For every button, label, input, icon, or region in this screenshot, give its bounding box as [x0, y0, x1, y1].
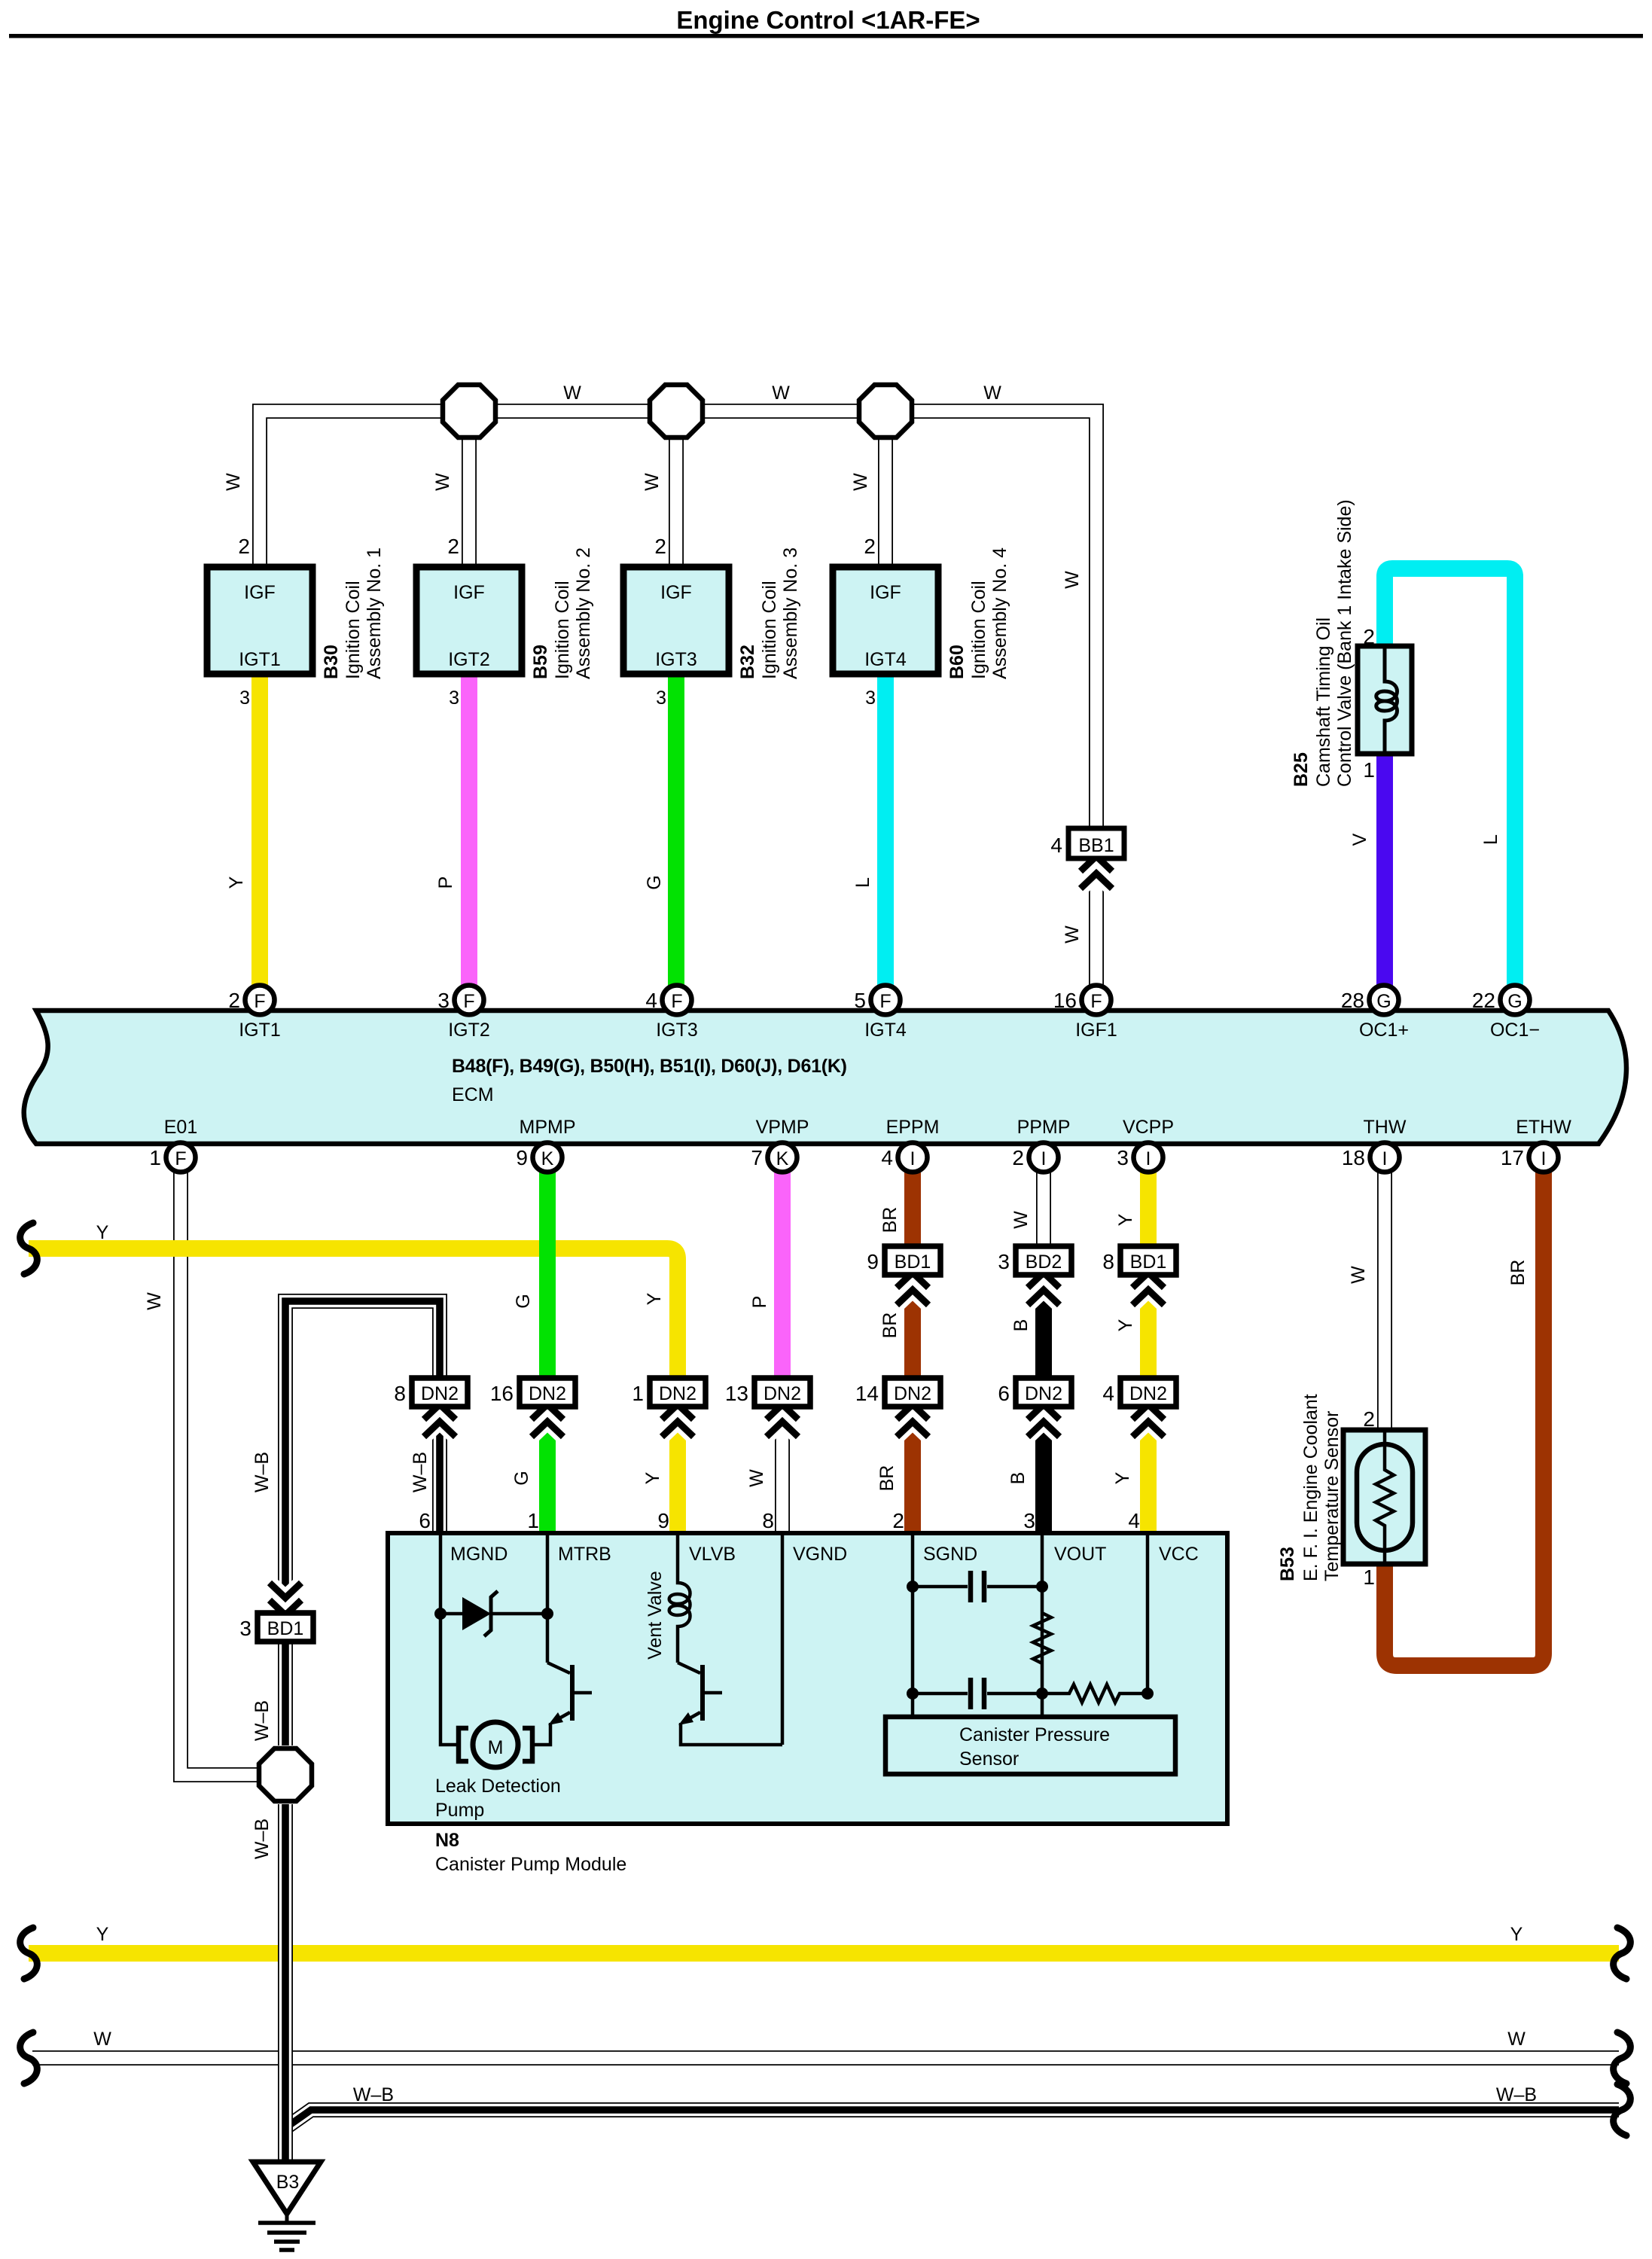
svg-text:Ignition Coil: Ignition Coil [343, 581, 364, 679]
wire W-B module MGND pin 6 through DN2 and BD1 to junction4 [285, 1301, 440, 1745]
svg-text:F: F [671, 991, 682, 1012]
svg-text:2: 2 [1363, 625, 1375, 648]
svg-text:BD2: BD2 [1026, 1251, 1062, 1273]
svg-text:3: 3 [239, 1617, 251, 1640]
resistor R2 [1042, 1684, 1148, 1703]
svg-text:DN2: DN2 [659, 1383, 696, 1404]
svg-text:B: B [1010, 1319, 1032, 1332]
svg-text:B60: B60 [946, 645, 968, 679]
svg-text:VPMP: VPMP [756, 1117, 809, 1138]
svg-text:V: V [1349, 833, 1370, 846]
svg-text:G: G [511, 1471, 532, 1485]
connector 8 DN2 [394, 1378, 468, 1437]
connector 13 DN2 [725, 1378, 810, 1437]
svg-text:Y: Y [96, 1924, 109, 1945]
svg-text:MPMP: MPMP [520, 1117, 576, 1138]
svg-text:EPPM: EPPM [886, 1117, 940, 1138]
svg-text:4: 4 [1050, 834, 1062, 857]
connector 4 BB1 [1050, 828, 1124, 889]
svg-text:9: 9 [516, 1146, 528, 1169]
torn end wire W-B bottom right [1614, 2084, 1631, 2136]
ECM pin 5 (F) [854, 986, 900, 1015]
wire V B25 valve pin 1 to ECM pin OC1+ [1376, 754, 1393, 986]
svg-text:L: L [852, 877, 873, 888]
svg-text:Control Valve (Bank 1 Intake S: Control Valve (Bank 1 Intake Side) [1334, 499, 1355, 787]
svg-text:1: 1 [1363, 1565, 1375, 1589]
svg-text:W: W [746, 1469, 767, 1487]
svg-text:W–B: W–B [410, 1452, 431, 1492]
svg-text:G: G [644, 875, 665, 889]
svg-text:F: F [1090, 991, 1102, 1012]
svg-text:I: I [1541, 1148, 1547, 1169]
svg-text:Y: Y [1112, 1471, 1133, 1484]
svg-text:Y: Y [644, 1292, 665, 1305]
svg-text:3: 3 [656, 687, 666, 709]
svg-text:IGT1: IGT1 [239, 649, 281, 670]
wire Y bottom harness [29, 1945, 1619, 1962]
svg-text:BR: BR [1507, 1260, 1529, 1286]
node dot [1141, 1687, 1154, 1700]
svg-text:W–B: W–B [251, 1818, 273, 1859]
title rule [9, 34, 1643, 38]
ECM pin 1 (F) [149, 1143, 195, 1172]
svg-text:W: W [144, 1292, 165, 1310]
svg-text:IGF: IGF [453, 582, 485, 603]
ECM pin 2 (F) [228, 986, 274, 1015]
wire VCC internal [1146, 1533, 1150, 1693]
svg-text:BR: BR [879, 1207, 901, 1233]
wire Y ignition coil 1 IGT1 to ECM pin 2 [251, 674, 268, 986]
svg-text:B53: B53 [1277, 1547, 1298, 1581]
svg-text:3: 3 [437, 989, 450, 1012]
svg-text:3: 3 [998, 1250, 1010, 1273]
sensor B53 EFI Engine Coolant Temperature Sensor [1277, 1394, 1425, 1589]
wire L B25 valve pin 2 to ECM pin OC1- [1385, 569, 1515, 986]
svg-text:13: 13 [725, 1382, 748, 1405]
svg-text:4: 4 [1102, 1382, 1114, 1405]
svg-text:IGT4: IGT4 [864, 1020, 907, 1041]
svg-text:BD1: BD1 [1130, 1251, 1167, 1273]
wire W ECM E01 to junction4 [181, 1172, 257, 1775]
ECM pin 3 (F) [437, 986, 483, 1015]
node dot [907, 1581, 919, 1593]
connector 16 DN2 [490, 1378, 575, 1437]
svg-text:9: 9 [657, 1509, 669, 1532]
svg-text:W: W [642, 473, 663, 491]
svg-text:B48(F), B49(G), B50(H), B51(I): B48(F), B49(G), B50(H), B51(I), D60(J), … [452, 1056, 847, 1077]
wire G ECM MPMP to module MTRB pin 1 [539, 1172, 556, 1533]
svg-text:Y: Y [1115, 1213, 1136, 1226]
connector 14 DN2 [855, 1378, 940, 1437]
ground B3 [253, 2162, 321, 2250]
svg-text:W: W [93, 2029, 111, 2050]
svg-text:9: 9 [867, 1250, 879, 1273]
svg-text:VLVB: VLVB [689, 1544, 736, 1565]
svg-text:ETHW: ETHW [1516, 1117, 1571, 1138]
svg-text:14: 14 [855, 1382, 879, 1405]
svg-text:E. F. I. Engine Coolant: E. F. I. Engine Coolant [1300, 1394, 1321, 1581]
svg-text:W–B: W–B [251, 1452, 273, 1492]
svg-text:Sensor: Sensor [959, 1748, 1019, 1770]
wire P ignition coil 2 IGT2 to ECM pin 3 [461, 674, 477, 986]
svg-text:W: W [1507, 2029, 1526, 2050]
svg-text:Y: Y [642, 1471, 663, 1484]
svg-text:DN2: DN2 [421, 1383, 459, 1404]
svg-text:P: P [435, 876, 456, 889]
svg-text:1: 1 [149, 1146, 161, 1169]
svg-text:2: 2 [892, 1509, 904, 1532]
svg-text:BD1: BD1 [895, 1251, 931, 1273]
svg-text:DN2: DN2 [529, 1383, 566, 1404]
connector 6 DN2 [998, 1378, 1071, 1437]
canister pressure sensor block [885, 1717, 1175, 1774]
svg-text:DN2: DN2 [764, 1383, 801, 1404]
ignition coil B59 (IGT2) [416, 535, 594, 709]
svg-text:B30: B30 [321, 645, 342, 679]
wire VOUT internal [1041, 1533, 1044, 1717]
svg-text:W–B: W–B [251, 1700, 273, 1741]
svg-text:W: W [1010, 1211, 1032, 1229]
ECM pin 17 (I) [1501, 1143, 1559, 1172]
svg-text:W: W [1062, 925, 1083, 944]
svg-text:MTRB: MTRB [558, 1544, 611, 1565]
svg-text:F: F [879, 991, 891, 1012]
svg-text:Engine Control <1AR-FE>: Engine Control <1AR-FE> [676, 6, 980, 34]
wire G ignition coil 3 IGT3 to ECM pin 4 [668, 674, 684, 986]
svg-text:Ignition Coil: Ignition Coil [552, 581, 573, 679]
ECM pin 18 (I) [1342, 1143, 1400, 1172]
svg-text:Y: Y [226, 876, 247, 889]
svg-text:K: K [776, 1148, 789, 1169]
transistor Q1 [531, 1663, 592, 1745]
ignition coil B30 (IGT1) [207, 535, 385, 709]
svg-text:8: 8 [1102, 1250, 1114, 1273]
svg-text:Assembly No. 4: Assembly No. 4 [989, 547, 1010, 679]
svg-text:B25: B25 [1291, 752, 1312, 787]
svg-text:W–B: W–B [353, 2084, 394, 2105]
svg-text:L: L [1480, 834, 1501, 845]
svg-text:16: 16 [490, 1382, 514, 1405]
svg-text:W–B: W–B [1496, 2084, 1537, 2105]
svg-text:F: F [463, 991, 474, 1012]
svg-text:Y: Y [96, 1222, 109, 1243]
svg-text:M: M [488, 1737, 504, 1758]
ECM pin 3 (I) [1117, 1143, 1163, 1172]
svg-text:IGF1: IGF1 [1075, 1020, 1117, 1041]
ECM pin 28 (G) [1341, 986, 1399, 1015]
svg-text:3: 3 [449, 687, 459, 709]
svg-text:28: 28 [1341, 989, 1364, 1012]
ECM pin 4 (F) [645, 986, 691, 1015]
svg-text:BR: BR [879, 1312, 901, 1339]
svg-text:F: F [175, 1148, 186, 1169]
svg-text:I: I [1382, 1148, 1388, 1169]
svg-text:6: 6 [419, 1509, 431, 1532]
svg-text:B59: B59 [530, 645, 551, 679]
motor M leak detection pump [459, 1722, 532, 1767]
svg-text:N8: N8 [435, 1830, 459, 1851]
wire W junction2 to junction3 [705, 404, 857, 419]
svg-text:E01: E01 [164, 1117, 197, 1138]
ignition coil B60 (IGT4) [833, 535, 1010, 709]
node junction J3 [859, 385, 912, 437]
ECM pin 22 (G) [1472, 986, 1530, 1015]
svg-text:18: 18 [1342, 1146, 1365, 1169]
svg-text:2: 2 [1012, 1146, 1024, 1169]
vent valve coil [669, 1533, 690, 1663]
svg-text:IGT1: IGT1 [239, 1020, 281, 1041]
wire W bottom harness [32, 2050, 1619, 2065]
connector 3 BD1 [239, 1583, 313, 1642]
svg-text:2: 2 [654, 535, 666, 558]
wire B BD2 to module VOUT pin 3 [1035, 1250, 1052, 1533]
svg-text:VGND: VGND [793, 1544, 847, 1565]
ECM pin 7 (K) [751, 1143, 797, 1172]
svg-text:2: 2 [864, 535, 876, 558]
svg-text:B: B [1007, 1472, 1029, 1485]
svg-text:G: G [1507, 991, 1522, 1012]
svg-text:Y: Y [1115, 1319, 1136, 1331]
wire MGND internal [440, 1533, 459, 1745]
zener diode D1 [434, 1591, 553, 1636]
svg-text:THW: THW [1364, 1117, 1407, 1138]
svg-text:B32: B32 [737, 645, 758, 679]
svg-text:Temperature Sensor: Temperature Sensor [1321, 1410, 1343, 1581]
svg-text:VCC: VCC [1159, 1544, 1199, 1565]
svg-text:VOUT: VOUT [1054, 1544, 1106, 1565]
svg-text:3: 3 [239, 687, 250, 709]
wire W junction to ignition coil 2 IGF [462, 440, 477, 567]
ECM B48(F),B49(G),B50(H),B51(I),D60(J),D61(K) body [24, 1011, 1626, 1144]
torn end wire W bottom left [20, 2032, 38, 2084]
svg-text:2: 2 [238, 535, 250, 558]
torn end wire Y middle left [20, 1223, 38, 1274]
svg-text:W: W [850, 473, 871, 491]
node junction J1 [443, 385, 495, 437]
ECM pin 16 (F) [1053, 986, 1111, 1015]
svg-text:K: K [541, 1148, 554, 1169]
wire W junction2 to ignition coil 3 IGF [669, 440, 684, 567]
svg-text:OC1−: OC1− [1490, 1020, 1540, 1041]
svg-text:16: 16 [1053, 989, 1077, 1012]
svg-text:2: 2 [228, 989, 240, 1012]
svg-text:BR: BR [876, 1465, 898, 1492]
svg-text:Pump: Pump [435, 1800, 484, 1821]
wire W junction1 to junction2 [498, 404, 648, 419]
connector 8 BD1 [1102, 1246, 1176, 1305]
svg-text:1: 1 [527, 1509, 539, 1532]
connector 4 DN2 [1102, 1378, 1176, 1437]
svg-text:Assembly No. 1: Assembly No. 1 [364, 547, 385, 679]
svg-text:Y: Y [1510, 1924, 1523, 1945]
svg-text:OC1+: OC1+ [1359, 1020, 1409, 1041]
svg-text:W: W [223, 473, 244, 491]
svg-text:DN2: DN2 [1129, 1383, 1167, 1404]
torn end wire W bottom right [1614, 2032, 1631, 2084]
svg-text:Leak Detection: Leak Detection [435, 1776, 561, 1797]
svg-text:4: 4 [1128, 1509, 1140, 1532]
svg-text:4: 4 [881, 1146, 893, 1169]
svg-text:PPMP: PPMP [1017, 1117, 1071, 1138]
wire MTRB internal [546, 1533, 550, 1663]
wire Y ECM VCPP to module VCC pin 4 [1140, 1172, 1157, 1533]
svg-text:2: 2 [1363, 1407, 1375, 1431]
svg-text:BB1: BB1 [1078, 835, 1114, 856]
svg-text:6: 6 [998, 1382, 1010, 1405]
svg-text:W: W [1348, 1266, 1369, 1284]
svg-text:Canister Pump Module: Canister Pump Module [435, 1854, 626, 1875]
wire W ECM THW to B53 sensor pin 2 [1377, 1172, 1392, 1430]
svg-text:2: 2 [447, 535, 459, 558]
svg-text:W: W [983, 383, 1001, 404]
node junction J4 [259, 1748, 312, 1801]
connector 1 DN2 [632, 1378, 706, 1437]
wire P ECM VPMP to DN2 [774, 1172, 791, 1389]
wire W junction3 to BB1 to ECM pin IGF1 [914, 411, 1096, 986]
connector 3 BD2 [998, 1246, 1071, 1305]
svg-text:7: 7 [751, 1146, 763, 1169]
node junction J2 [650, 385, 703, 437]
node dot [1036, 1687, 1048, 1700]
resistor R1 [1033, 1613, 1051, 1663]
wire VGND internal [781, 1533, 785, 1745]
svg-text:VCPP: VCPP [1123, 1117, 1174, 1138]
svg-text:4: 4 [645, 989, 657, 1012]
torn end wire Y bottom left [20, 1928, 38, 1979]
ECM pin 4 (I) [881, 1143, 927, 1172]
svg-text:G: G [513, 1294, 534, 1308]
svg-text:Assembly No. 3: Assembly No. 3 [780, 547, 801, 679]
svg-text:F: F [254, 991, 265, 1012]
svg-text:3: 3 [865, 687, 876, 709]
svg-text:SGND: SGND [923, 1544, 977, 1565]
svg-text:8: 8 [762, 1509, 774, 1532]
svg-text:Assembly No. 2: Assembly No. 2 [573, 547, 594, 679]
wire W-B junction4 to ground B3 [278, 1804, 293, 2162]
wire W DN2 to module VGND pin 8 [775, 1393, 790, 1533]
svg-text:Canister Pressure: Canister Pressure [959, 1724, 1110, 1745]
svg-text:P: P [749, 1296, 770, 1309]
wire W ECM PPMP to BD2 [1036, 1172, 1051, 1262]
node dot [1036, 1581, 1048, 1593]
svg-text:W: W [563, 383, 581, 404]
svg-text:DN2: DN2 [894, 1383, 931, 1404]
svg-text:1: 1 [632, 1382, 644, 1405]
svg-text:Vent Valve: Vent Valve [645, 1571, 666, 1660]
torn end wire Y bottom right [1614, 1928, 1631, 1979]
wire W-B bottom harness [285, 2110, 1619, 2128]
svg-text:3: 3 [1117, 1146, 1129, 1169]
wire BR ECM EPPM to module SGND pin 2 [904, 1172, 921, 1533]
svg-text:1: 1 [1363, 758, 1375, 782]
thermistor element [1376, 1430, 1394, 1564]
transistor Q2 [678, 1663, 782, 1745]
capacitor C1 [913, 1571, 1042, 1602]
svg-text:W: W [772, 383, 790, 404]
svg-text:B3: B3 [276, 2172, 300, 2193]
svg-text:W: W [1062, 571, 1083, 589]
svg-text:IGT2: IGT2 [448, 649, 490, 670]
svg-text:MGND: MGND [450, 1544, 507, 1565]
svg-text:IGF: IGF [870, 582, 901, 603]
svg-text:BD1: BD1 [267, 1618, 304, 1639]
svg-text:I: I [1041, 1148, 1047, 1169]
svg-text:IGF: IGF [244, 582, 276, 603]
svg-text:DN2: DN2 [1025, 1383, 1062, 1404]
svg-text:IGT4: IGT4 [864, 649, 907, 670]
wire W junction3 to ignition coil 4 IGF [878, 440, 893, 567]
wire BR ECM ETHW to B53 sensor pin 1 [1385, 1172, 1544, 1666]
module N8 Canister Pump Module [388, 1533, 1227, 1824]
wire SGND internal [911, 1533, 915, 1717]
wire L ignition coil 4 IGT4 to ECM pin 5 [877, 674, 894, 986]
capacitor C2 [913, 1678, 1042, 1709]
svg-text:17: 17 [1501, 1146, 1524, 1169]
solenoid valve B25 Camshaft Timing Oil Control Valve [1291, 499, 1412, 787]
svg-text:I: I [910, 1148, 916, 1169]
svg-text:22: 22 [1472, 989, 1495, 1012]
svg-text:I: I [1146, 1148, 1151, 1169]
svg-text:3: 3 [1023, 1509, 1035, 1532]
svg-text:8: 8 [394, 1382, 406, 1405]
wire Y harness to DN2 to module VLVB pin 9 [29, 1248, 678, 1533]
svg-text:IGT3: IGT3 [656, 1020, 698, 1041]
svg-text:Ignition Coil: Ignition Coil [968, 581, 989, 679]
svg-text:IGT3: IGT3 [655, 649, 697, 670]
node dot [907, 1687, 919, 1700]
ignition coil B32 (IGT3) [623, 535, 801, 709]
ECM pin 2 (I) [1012, 1143, 1058, 1172]
svg-text:W: W [432, 473, 453, 491]
svg-text:Camshaft Timing Oil: Camshaft Timing Oil [1313, 617, 1334, 787]
svg-text:ECM: ECM [452, 1084, 494, 1105]
svg-text:IGF: IGF [660, 582, 692, 603]
svg-text:Ignition Coil: Ignition Coil [759, 581, 780, 679]
connector 9 BD1 [867, 1246, 940, 1305]
svg-text:5: 5 [854, 989, 866, 1012]
svg-text:G: G [1376, 991, 1391, 1012]
svg-text:IGT2: IGT2 [448, 1020, 490, 1041]
wire W ignition coil 1 IGF to junction [260, 411, 440, 567]
ECM pin 9 (K) [516, 1143, 562, 1172]
